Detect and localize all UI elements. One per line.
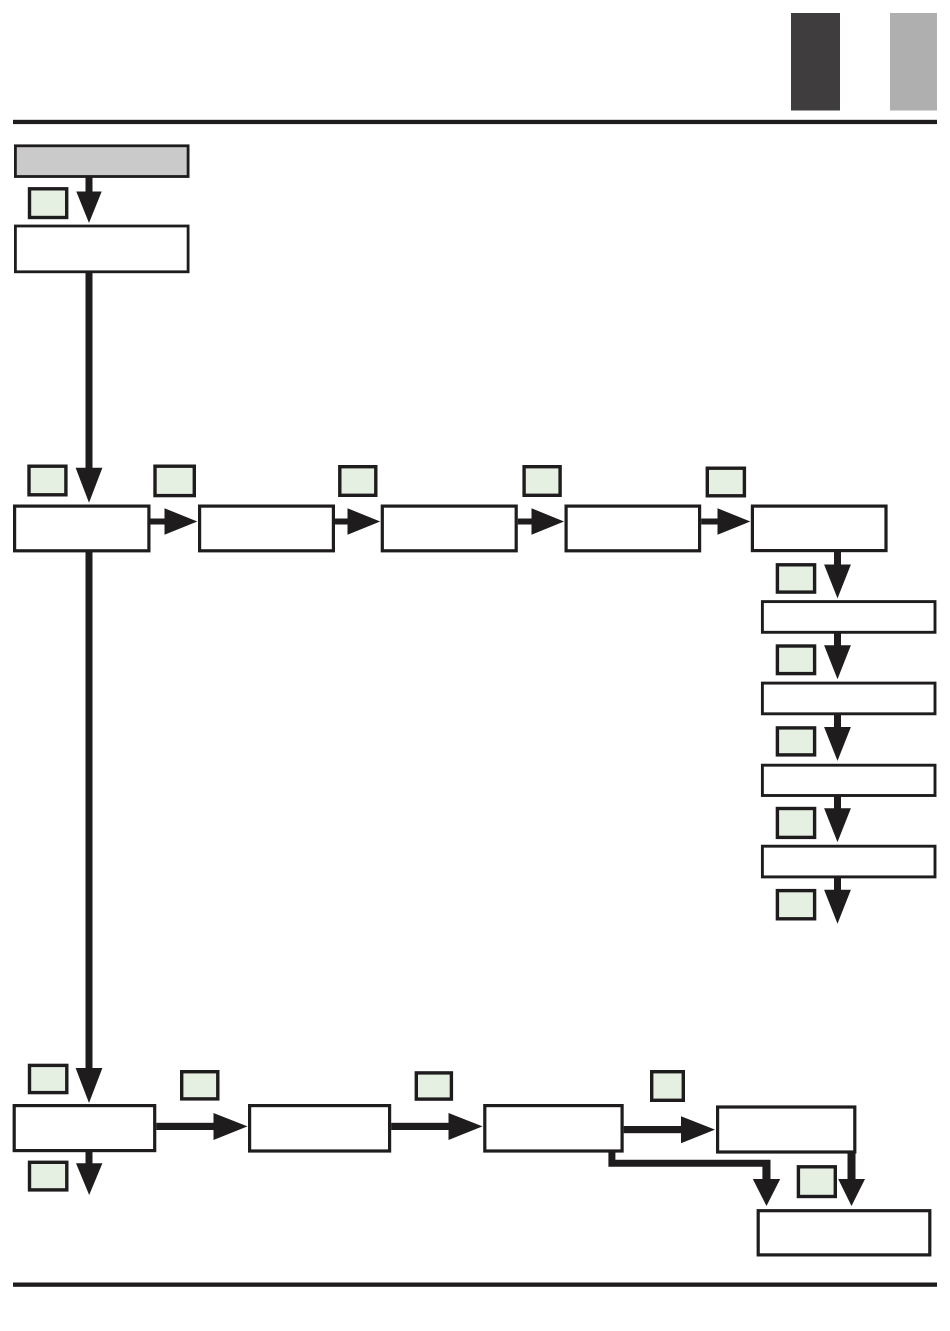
right-col box 3 — [762, 765, 935, 795]
arrow A4: row2 box3 to box4 — [518, 508, 564, 535]
row2 box 5 — [752, 506, 886, 550]
key box K14 (green, row3 gap2) — [416, 1073, 451, 1099]
bottom horizontal rule — [13, 1283, 937, 1287]
arrow A15: row3 box4 down to box5 — [838, 1152, 865, 1206]
right-col box 4 — [762, 846, 935, 877]
key box K1 (green) — [30, 189, 67, 218]
key box K5 (green, row2 col4) — [524, 467, 560, 496]
arrow A5: row2 box4 to box5 — [701, 508, 750, 535]
arrow A2: row2 box1 to box2 — [151, 508, 198, 535]
arrow A13: row3 box3 to box4 — [624, 1116, 715, 1143]
key box K4 (green, row2 col3) — [340, 467, 376, 496]
arrow A6: row2 box5 down to right-col box 1 — [824, 552, 851, 598]
row2 box 3 — [382, 506, 516, 551]
key box K8 (green, right col) — [777, 646, 814, 674]
row2 box 4 — [566, 506, 700, 551]
row3 box 4 — [718, 1107, 855, 1152]
right-col box 2 — [762, 683, 935, 714]
arrow A8: right-col box2 to box3 — [824, 715, 851, 761]
row2 box 2 — [200, 506, 334, 551]
start box (gray header box) — [15, 146, 188, 177]
arrow A3: row2 box2 to box3 — [335, 508, 380, 535]
header light gray tab — [890, 13, 937, 111]
key box K7 (green, right col) — [777, 565, 814, 592]
wire W2: long vertical line row2 box1 to row3 box1 — [76, 551, 103, 1103]
key box K11 (green, right col bottom) — [777, 891, 814, 919]
arrow A10: right-col box4 continue down — [824, 878, 851, 924]
arrow A12: row3 box2 to box3 — [391, 1113, 482, 1140]
key box K12 (green, above row3 box1) — [30, 1065, 67, 1092]
key box K10 (green, right col) — [777, 809, 814, 838]
key box K9 (green, right col) — [777, 728, 814, 755]
row3 box 1 — [14, 1106, 155, 1151]
key box K13 (green, row3 gap1) — [182, 1072, 218, 1099]
row3 box 2 — [250, 1106, 390, 1151]
key box K15 (green, row3 gap3) — [652, 1072, 684, 1101]
arrow A1: start box to box B1 — [76, 178, 101, 224]
key box K3 (green, row2 col2) — [155, 466, 194, 495]
key box K16 (green, below row3 box1) — [30, 1162, 67, 1190]
wire W3: elbow from row3 box3 down-right to box 5 — [608, 1151, 780, 1206]
top horizontal rule — [13, 120, 937, 124]
arrow A14: row3 box1 continue down — [76, 1151, 102, 1195]
row3 box 3 — [485, 1106, 622, 1151]
right-col box 1 — [762, 602, 935, 633]
row2 box 1 — [15, 506, 149, 551]
key box K17 (green, above row3 box5) — [798, 1167, 835, 1197]
header dark gray tab — [791, 13, 840, 111]
key box K2 (green, row2 col1) — [29, 466, 66, 495]
arrow A7: right-col box1 to box2 — [824, 633, 851, 679]
row3 box 5 — [758, 1211, 930, 1255]
wire W1: long vertical line B1 to row2 box1 — [76, 272, 103, 503]
box B1 — [15, 226, 188, 272]
arrow A9: right-col box3 to box4 — [824, 796, 851, 842]
key box K6 (green, row2 col5) — [707, 468, 744, 496]
arrow A11: row3 box1 to box2 — [156, 1113, 247, 1140]
